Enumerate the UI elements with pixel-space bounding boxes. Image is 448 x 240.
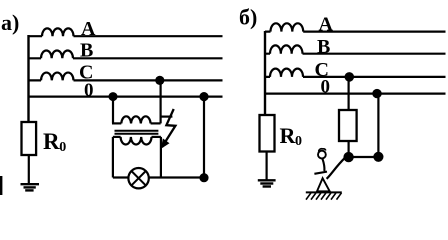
svg-text:0: 0: [84, 80, 94, 101]
svg-text:0: 0: [295, 134, 302, 149]
svg-text:A: A: [81, 18, 96, 40]
svg-text:а): а): [1, 10, 19, 35]
svg-text:B: B: [317, 36, 330, 58]
svg-text:0: 0: [59, 140, 66, 155]
svg-text:B: B: [80, 39, 93, 61]
svg-text:A: A: [319, 13, 334, 35]
svg-text:б): б): [239, 5, 257, 30]
svg-text:R: R: [43, 129, 60, 154]
svg-text:0: 0: [321, 77, 331, 98]
svg-text:R: R: [280, 123, 297, 148]
